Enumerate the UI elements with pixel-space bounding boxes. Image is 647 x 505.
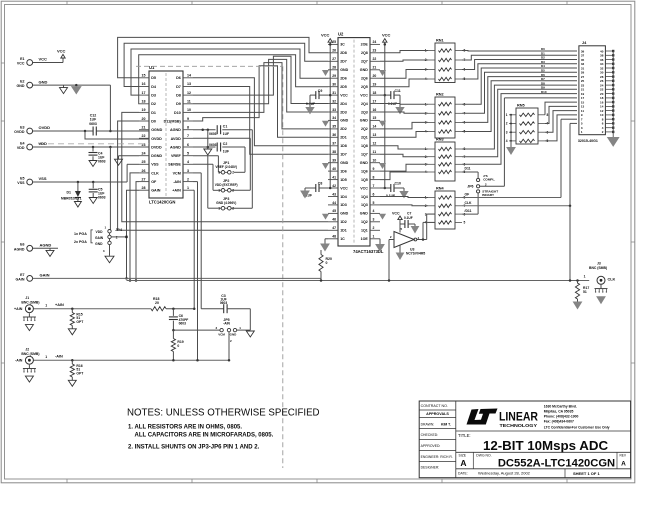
svg-text:6: 6 bbox=[373, 192, 375, 196]
svg-text:19: 19 bbox=[373, 83, 377, 87]
svg-text:47: 47 bbox=[332, 226, 336, 230]
svg-text:VCC: VCC bbox=[340, 186, 348, 190]
svg-text:1: 1 bbox=[218, 189, 220, 193]
svg-text:E5: E5 bbox=[20, 176, 24, 180]
svg-text:2D2: 2D2 bbox=[340, 127, 347, 131]
svg-text:E7: E7 bbox=[20, 273, 24, 277]
svg-text:26: 26 bbox=[142, 169, 146, 173]
svg-text:OGND: OGND bbox=[151, 128, 162, 132]
svg-text:9: 9 bbox=[373, 167, 375, 171]
svg-text:AVDD: AVDD bbox=[171, 137, 182, 141]
wire D7 to 1D7 bbox=[193, 87, 328, 155]
svg-text:E3: E3 bbox=[20, 125, 24, 129]
jumper JP1 VREF bbox=[215, 161, 237, 175]
svg-text:DATE:: DATE: bbox=[458, 472, 468, 476]
svg-text:/D11: /D11 bbox=[465, 209, 472, 213]
svg-text:DVDD: DVDD bbox=[151, 145, 162, 149]
svg-text:VCC: VCC bbox=[17, 62, 25, 66]
svg-text:GAIN: GAIN bbox=[16, 277, 25, 281]
resistor R19 bbox=[171, 330, 183, 361]
svg-text:GND: GND bbox=[360, 119, 368, 123]
svg-text:D3: D3 bbox=[151, 94, 156, 98]
svg-text:44: 44 bbox=[332, 201, 336, 205]
svg-text:D0: D0 bbox=[151, 120, 156, 124]
bus labels D0-D10 bbox=[541, 47, 547, 94]
svg-text:E2: E2 bbox=[20, 80, 24, 84]
dashed boundary bbox=[38, 66, 283, 468]
terminal E6 AGND bbox=[14, 243, 51, 252]
svg-text:12-BIT 10Msps ADC: 12-BIT 10Msps ADC bbox=[483, 438, 609, 453]
svg-text:33: 33 bbox=[332, 108, 336, 112]
svg-text:OVDD: OVDD bbox=[39, 125, 51, 130]
svg-text:VCC: VCC bbox=[382, 32, 391, 37]
svg-text:1Q1: 1Q1 bbox=[361, 229, 368, 233]
svg-text:40: 40 bbox=[332, 167, 336, 171]
svg-text:0603: 0603 bbox=[220, 301, 228, 305]
svg-text:C7: C7 bbox=[407, 211, 411, 215]
RN5 left ground rail bbox=[507, 114, 515, 154]
svg-text:1: 1 bbox=[506, 113, 508, 117]
svg-text:GND: GND bbox=[340, 161, 348, 165]
AGND tie + ground bbox=[204, 130, 221, 209]
svg-text:1D6: 1D6 bbox=[340, 169, 347, 173]
svg-text:C8: C8 bbox=[318, 182, 323, 186]
svg-text:37: 37 bbox=[332, 142, 336, 146]
svg-text:12: 12 bbox=[187, 91, 191, 95]
svg-text:2. INSTALL SHUNTS ON JP3-JP6: 2. INSTALL SHUNTS ON JP3-JP6 PIN 1 AND 2… bbox=[128, 445, 260, 451]
svg-text:2D4: 2D4 bbox=[340, 102, 347, 106]
wire CLK down to rail bbox=[569, 206, 572, 282]
svg-text:D11(MSB): D11(MSB) bbox=[164, 120, 182, 124]
terminal E5 VSS bbox=[17, 176, 47, 185]
svg-text:1UF: 1UF bbox=[223, 132, 229, 136]
wire VSS bbox=[33, 164, 139, 183]
svg-text:VCC: VCC bbox=[360, 186, 368, 190]
notes text bbox=[127, 408, 320, 451]
svg-text:46: 46 bbox=[332, 218, 336, 222]
svg-text:42: 42 bbox=[332, 184, 336, 188]
svg-text:E4: E4 bbox=[20, 141, 24, 145]
capacitor C3 bbox=[201, 294, 250, 313]
svg-text:2: 2 bbox=[232, 189, 234, 193]
connector J4 32015-40G1 bbox=[578, 40, 615, 143]
svg-text:D8: D8 bbox=[176, 94, 181, 98]
svg-text:13: 13 bbox=[187, 82, 191, 86]
svg-text:BNC (SMB): BNC (SMB) bbox=[589, 266, 607, 270]
terminal E1 VCC bbox=[17, 57, 47, 66]
svg-text:14: 14 bbox=[187, 74, 191, 78]
svg-text:26: 26 bbox=[332, 49, 336, 53]
svg-text:RN3: RN3 bbox=[436, 138, 444, 142]
svg-text:DC552A-LTC1420CGN: DC552A-LTC1420CGN bbox=[498, 457, 615, 469]
resistor R17 bbox=[574, 279, 590, 308]
svg-text:2Q6: 2Q6 bbox=[361, 77, 368, 81]
IC U2 74ACT16373DL bbox=[328, 31, 384, 254]
svg-text:BNC (SMB): BNC (SMB) bbox=[21, 300, 39, 304]
svg-text:OVDD: OVDD bbox=[14, 130, 25, 134]
wires RN5 to J4 bbox=[545, 102, 577, 141]
svg-text:1: 1 bbox=[187, 186, 189, 190]
U3 VCC and C7 bbox=[392, 211, 419, 232]
svg-text:OF: OF bbox=[465, 193, 470, 197]
svg-text:GND: GND bbox=[340, 119, 348, 123]
svg-text:6: 6 bbox=[187, 143, 189, 147]
svg-text:Wednesday, August 28, 2002: Wednesday, August 28, 2002 bbox=[478, 471, 531, 476]
wire CLK row bbox=[462, 123, 577, 207]
svg-text:16: 16 bbox=[142, 82, 146, 86]
svg-text:A: A bbox=[460, 458, 466, 468]
svg-text:2: 2 bbox=[506, 122, 508, 126]
capacitor C12 bbox=[89, 114, 97, 136]
svg-text:1Q3: 1Q3 bbox=[361, 203, 368, 207]
svg-text:51: 51 bbox=[583, 290, 587, 294]
svg-text:1D7: 1D7 bbox=[340, 153, 347, 157]
wire CLK rail to J3 bbox=[127, 280, 590, 282]
svg-text:CONTRACT NO.: CONTRACT NO. bbox=[421, 404, 448, 408]
svg-text:0603: 0603 bbox=[209, 132, 217, 136]
svg-text:AGND: AGND bbox=[170, 145, 181, 149]
svg-text:REV: REV bbox=[620, 454, 627, 458]
svg-text:1: 1 bbox=[45, 355, 47, 359]
svg-text:1x PGA: 1x PGA bbox=[74, 232, 87, 236]
svg-text:24: 24 bbox=[373, 40, 377, 44]
svg-text:D6: D6 bbox=[176, 76, 181, 80]
resistor R20 bbox=[319, 250, 332, 282]
svg-text:Phone: (408)432-1900: Phone: (408)432-1900 bbox=[544, 415, 579, 419]
svg-text:18: 18 bbox=[142, 100, 146, 104]
svg-text:+AIN: +AIN bbox=[14, 307, 23, 311]
svg-text:8: 8 bbox=[373, 175, 375, 179]
connector J1 BNC +AIN bbox=[21, 296, 39, 313]
svg-text:17: 17 bbox=[142, 91, 146, 95]
terminal E7 GAIN bbox=[16, 273, 50, 282]
svg-text:2D5: 2D5 bbox=[340, 85, 347, 89]
terminal E4 VDD bbox=[17, 141, 47, 150]
svg-text:KIM T.: KIM T. bbox=[441, 423, 451, 427]
svg-text:DRAWN:: DRAWN: bbox=[421, 423, 435, 427]
svg-text:1D3: 1D3 bbox=[340, 203, 347, 207]
svg-text:36: 36 bbox=[332, 133, 336, 137]
svg-text:TECHNOLOGY: TECHNOLOGY bbox=[500, 423, 538, 429]
wire bus D5-D2 top nest bbox=[118, 37, 328, 103]
svg-text:-AIN: -AIN bbox=[15, 359, 23, 363]
svg-text:VCM: VCM bbox=[173, 171, 181, 175]
svg-text:GND: GND bbox=[230, 333, 238, 337]
svg-text:D11: D11 bbox=[465, 167, 471, 171]
resistor network RN5 bbox=[506, 104, 549, 145]
svg-text:2D6: 2D6 bbox=[340, 77, 347, 81]
svg-text:2D8: 2D8 bbox=[340, 51, 347, 55]
svg-text:CHECKED:: CHECKED: bbox=[421, 433, 439, 437]
svg-text:3: 3 bbox=[187, 169, 189, 173]
terminal E3 OVDD bbox=[14, 125, 50, 134]
svg-text:CLK: CLK bbox=[465, 201, 473, 205]
svg-text:2Q8: 2Q8 bbox=[361, 51, 368, 55]
wire D1 bottom route to 1D2 bbox=[122, 112, 328, 221]
svg-text:GND: GND bbox=[360, 161, 368, 165]
svg-text:J3: J3 bbox=[597, 261, 601, 265]
svg-text:VCM: VCM bbox=[218, 333, 225, 337]
U2 GND pin grounds bbox=[323, 71, 385, 219]
svg-text:1OE: 1OE bbox=[361, 237, 369, 241]
svg-text:VSS: VSS bbox=[151, 163, 159, 167]
svg-text:GND: GND bbox=[340, 212, 348, 216]
svg-text:10: 10 bbox=[187, 108, 191, 112]
svg-text:AGND: AGND bbox=[40, 243, 52, 248]
wire D0 bottom route to 1D1 bbox=[118, 121, 328, 230]
svg-text:VREF (2.048V): VREF (2.048V) bbox=[215, 165, 237, 169]
svg-text:2: 2 bbox=[232, 207, 234, 211]
svg-text:1: 1 bbox=[45, 304, 47, 308]
resistor network RN2 bbox=[425, 93, 466, 139]
svg-text:2: 2 bbox=[373, 226, 375, 230]
svg-text:2Q1: 2Q1 bbox=[361, 136, 368, 140]
wire +AIN rail bbox=[33, 303, 151, 309]
svg-text:C11: C11 bbox=[395, 89, 401, 93]
wire VCC E1 bbox=[33, 49, 66, 63]
wire U3 input bbox=[388, 240, 391, 282]
capacitor C10 bbox=[380, 182, 408, 198]
wire U3 output bbox=[417, 214, 435, 241]
svg-text:11: 11 bbox=[373, 150, 377, 154]
svg-text:1Q8: 1Q8 bbox=[361, 144, 368, 148]
svg-text:21: 21 bbox=[373, 66, 377, 70]
svg-text:22: 22 bbox=[373, 57, 377, 61]
svg-text:1Q5: 1Q5 bbox=[361, 178, 368, 182]
svg-text:12: 12 bbox=[373, 142, 377, 146]
svg-text:Fax: (408)434-0607: Fax: (408)434-0607 bbox=[544, 420, 574, 424]
svg-text:VCC: VCC bbox=[340, 93, 348, 97]
connector J2 BNC -AIN bbox=[21, 348, 39, 365]
wire AGND row6 to JP1 bbox=[234, 147, 245, 172]
svg-text:CLK: CLK bbox=[608, 277, 616, 281]
svg-text:D1: D1 bbox=[67, 191, 72, 195]
connector J3 BNC CLK bbox=[584, 261, 616, 303]
svg-text:20: 20 bbox=[155, 301, 159, 305]
svg-text:TITLE:: TITLE: bbox=[458, 433, 471, 438]
svg-text:GND: GND bbox=[17, 84, 25, 88]
svg-text:3C: 3C bbox=[340, 43, 345, 47]
VCC rail U2 left bbox=[321, 32, 332, 189]
svg-text:GAIN: GAIN bbox=[95, 236, 104, 240]
svg-text:30: 30 bbox=[332, 83, 336, 87]
svg-text:GND: GND bbox=[360, 68, 368, 72]
svg-text:C10: C10 bbox=[395, 182, 401, 186]
svg-text:GND (4.096V): GND (4.096V) bbox=[216, 201, 236, 205]
svg-text:19: 19 bbox=[142, 108, 146, 112]
svg-text:+AIN: +AIN bbox=[172, 189, 181, 193]
svg-text:RN5: RN5 bbox=[517, 104, 525, 108]
svg-text:VDD: VDD bbox=[17, 146, 25, 150]
J4 ground rail bbox=[608, 51, 619, 146]
svg-text:D10: D10 bbox=[174, 111, 181, 115]
svg-text:1C: 1C bbox=[340, 237, 345, 241]
svg-text:16: 16 bbox=[373, 108, 377, 112]
svg-text:1D8: 1D8 bbox=[340, 144, 347, 148]
svg-text:24: 24 bbox=[142, 152, 146, 156]
wire VREF to JP1 bbox=[193, 156, 221, 173]
svg-text:22: 22 bbox=[142, 134, 146, 138]
svg-text:48: 48 bbox=[332, 235, 336, 239]
svg-text:NOTES: UNLESS OTHERWISE SPECI: NOTES: UNLESS OTHERWISE SPECIFIED bbox=[127, 408, 320, 419]
resistor network RN3 bbox=[425, 138, 466, 182]
svg-text:8: 8 bbox=[187, 126, 189, 130]
svg-text:1Q2: 1Q2 bbox=[361, 220, 368, 224]
svg-text:1: 1 bbox=[584, 274, 586, 278]
wire /D11 to JP6 bbox=[462, 193, 478, 214]
svg-text:E1: E1 bbox=[20, 57, 24, 61]
svg-text:-AIN: -AIN bbox=[223, 321, 230, 325]
wire GAIN from U1 bbox=[125, 190, 139, 279]
svg-text:OVDD: OVDD bbox=[151, 137, 162, 141]
svg-text:28: 28 bbox=[332, 66, 336, 70]
capacitor C8 bbox=[301, 182, 328, 198]
svg-text:0: 0 bbox=[177, 344, 179, 348]
svg-text:0: 0 bbox=[326, 261, 328, 265]
jumper JP2 VDD bbox=[215, 179, 238, 193]
svg-text:VCC: VCC bbox=[360, 93, 368, 97]
svg-text:VCC: VCC bbox=[321, 32, 330, 37]
svg-text:2D7: 2D7 bbox=[340, 60, 347, 64]
svg-text:GND: GND bbox=[360, 212, 368, 216]
svg-text:18: 18 bbox=[373, 91, 377, 95]
wire -AIN rail bbox=[33, 355, 229, 361]
wire JP6 to J4 bbox=[480, 98, 577, 186]
svg-text:23: 23 bbox=[373, 49, 377, 53]
svg-text:VDD: VDD bbox=[96, 230, 104, 234]
svg-text:1UF: 1UF bbox=[223, 149, 229, 153]
svg-text:DGND: DGND bbox=[151, 154, 162, 158]
svg-text:DWG NO.: DWG NO. bbox=[476, 454, 491, 458]
svg-text:ENGINEER: RICH R.: ENGINEER: RICH R. bbox=[421, 455, 453, 459]
svg-text:10: 10 bbox=[373, 159, 377, 163]
resistor network RN1 bbox=[425, 39, 466, 83]
svg-text:35: 35 bbox=[332, 125, 336, 129]
wire GAIN rail bbox=[33, 277, 321, 279]
svg-text:AGND: AGND bbox=[14, 247, 25, 251]
jumper JP4 PGA select bbox=[74, 225, 123, 262]
svg-text:1D2: 1D2 bbox=[340, 220, 347, 224]
svg-text:VDD: VDD bbox=[39, 141, 48, 146]
svg-text:APPROVALS: APPROVALS bbox=[426, 412, 449, 416]
svg-text:5: 5 bbox=[464, 221, 466, 225]
wire OF from U1 bbox=[135, 182, 139, 282]
svg-text:ALL CAPACITORS ARE IN MICROFAR: ALL CAPACITORS ARE IN MICROFARADS, 0805. bbox=[135, 433, 274, 439]
wire VCM bbox=[193, 173, 201, 309]
svg-text:2Q5: 2Q5 bbox=[361, 85, 368, 89]
wire JP4 GAIN junction bbox=[111, 236, 128, 238]
svg-text:43: 43 bbox=[332, 192, 336, 196]
inverter U3 NC7SV04 bbox=[389, 227, 425, 259]
svg-text:29: 29 bbox=[332, 74, 336, 78]
wire GND E2 bbox=[33, 84, 111, 94]
svg-text:1Q6: 1Q6 bbox=[361, 169, 368, 173]
wire D6 to 1D8 bbox=[193, 78, 328, 146]
svg-text:5: 5 bbox=[373, 201, 375, 205]
svg-text:0603: 0603 bbox=[98, 196, 106, 200]
svg-text:2: 2 bbox=[187, 177, 189, 181]
wire bus D8-D11 inner nest bbox=[193, 56, 328, 137]
svg-text:MBR0520LT1: MBR0520LT1 bbox=[61, 197, 82, 201]
svg-text:GAIN: GAIN bbox=[40, 273, 50, 278]
svg-text:1D1: 1D1 bbox=[340, 229, 347, 233]
svg-text:J4: J4 bbox=[582, 40, 587, 45]
wire VDD bbox=[33, 146, 149, 149]
svg-text:Milpitas, CA 95035: Milpitas, CA 95035 bbox=[544, 410, 574, 414]
svg-text:1D4: 1D4 bbox=[340, 195, 347, 199]
svg-text:GND: GND bbox=[95, 242, 103, 246]
svg-text:2D3: 2D3 bbox=[340, 110, 347, 114]
svg-text:VDD (EXT.REF): VDD (EXT.REF) bbox=[215, 183, 238, 187]
svg-text:SHEET 1 OF 1: SHEET 1 OF 1 bbox=[573, 471, 600, 476]
svg-text:2: 2 bbox=[485, 182, 487, 186]
wire GND rail to OGND bbox=[109, 85, 112, 132]
svg-text:U1: U1 bbox=[149, 65, 155, 70]
svg-text:VCC: VCC bbox=[392, 211, 400, 215]
svg-text:27: 27 bbox=[332, 57, 336, 61]
wires U2 outputs to RN1-RN3 bbox=[380, 51, 428, 180]
svg-text:LINEAR: LINEAR bbox=[499, 410, 538, 424]
resistor network RN4 bbox=[425, 187, 466, 230]
wire C6 bottom row bbox=[172, 329, 220, 332]
svg-text:GND: GND bbox=[39, 79, 48, 84]
svg-text:NC7SV04M5: NC7SV04M5 bbox=[406, 251, 425, 255]
svg-text:5: 5 bbox=[187, 152, 189, 156]
wire D11 to JP6 bbox=[462, 167, 478, 179]
svg-text:2x PGA: 2x PGA bbox=[74, 240, 87, 244]
svg-text:OF: OF bbox=[151, 180, 157, 184]
resistor R16 bbox=[68, 359, 84, 386]
svg-text:7: 7 bbox=[373, 184, 375, 188]
capacitor C9 bbox=[306, 89, 328, 114]
svg-text:13: 13 bbox=[373, 133, 377, 137]
svg-text:0.1UF: 0.1UF bbox=[386, 194, 395, 198]
svg-text:25: 25 bbox=[142, 160, 146, 164]
svg-text:JP6: JP6 bbox=[467, 185, 473, 189]
svg-text:20: 20 bbox=[142, 117, 146, 121]
resistor R15 bbox=[68, 307, 84, 334]
svg-text:31: 31 bbox=[332, 91, 336, 95]
capacitor C4 bbox=[89, 147, 106, 167]
svg-text:VSS: VSS bbox=[17, 181, 25, 185]
svg-text:LTC Confidential-For Customer: LTC Confidential-For Customer Use Only bbox=[544, 426, 610, 430]
wire AGND row8 to JP3 bbox=[231, 130, 252, 209]
svg-text:D9: D9 bbox=[176, 102, 181, 106]
svg-text:RN1: RN1 bbox=[436, 39, 444, 43]
svg-text:LTC1420CGN: LTC1420CGN bbox=[149, 199, 175, 204]
svg-text:APPROVED:: APPROVED: bbox=[421, 444, 441, 448]
svg-text:32015-40G1: 32015-40G1 bbox=[578, 139, 598, 143]
svg-text:7: 7 bbox=[187, 134, 189, 138]
svg-text:4: 4 bbox=[187, 160, 189, 164]
svg-text:1Q4: 1Q4 bbox=[361, 195, 368, 199]
jumper JP3 GND bbox=[216, 197, 236, 211]
svg-text:D7: D7 bbox=[176, 85, 181, 89]
wire OF row bbox=[462, 119, 577, 197]
svg-text:0603: 0603 bbox=[179, 321, 187, 325]
svg-text:15: 15 bbox=[142, 74, 146, 78]
title block bbox=[419, 401, 630, 478]
svg-text:1. ALL RESISTORS ARE IN OHMS,: 1. ALL RESISTORS ARE IN OHMS, 0805. bbox=[128, 425, 242, 431]
svg-text:CLK: CLK bbox=[151, 171, 159, 175]
wires U2 outputs to RN4 bbox=[380, 197, 428, 206]
svg-text:15: 15 bbox=[373, 116, 377, 120]
DGND ground bbox=[115, 156, 140, 166]
Linear Technology logo bbox=[467, 409, 539, 430]
svg-text:1: 1 bbox=[373, 235, 375, 239]
svg-text:45: 45 bbox=[332, 209, 336, 213]
wire +AIN vertical bbox=[193, 190, 196, 310]
